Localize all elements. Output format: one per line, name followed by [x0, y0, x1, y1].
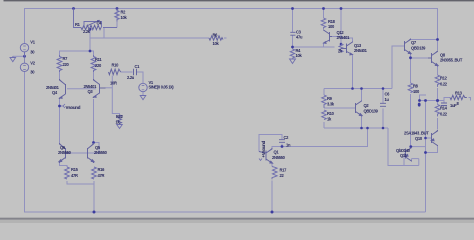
- wire Q11 base drop stub: [418, 159, 420, 166]
- resistor R4: [290, 49, 294, 58]
- wire load R13 right end: [469, 98, 471, 101]
- resistor R16: [92, 167, 97, 179]
- wire Q4 collector down to Vsound node: [59, 99, 61, 143]
- resistor R10b bias: [322, 110, 327, 120]
- wire C6 column: [382, 89, 384, 104]
- ground R12: [117, 125, 123, 129]
- window top border: [4, 0, 474, 1]
- wire feedback resistor open end: [224, 37, 227, 39]
- svg-text:2SA1943_BUT: 2SA1943_BUT: [404, 131, 429, 136]
- wire C1 to V1: [137, 72, 143, 83]
- svg-text:Q11: Q11: [400, 153, 408, 158]
- net flag Out riser: [420, 95, 427, 101]
- net flag Vsound at Q4 collector: [61, 104, 65, 108]
- svg-text:1uF: 1uF: [450, 103, 457, 108]
- wire diff pair base link: [67, 88, 96, 90]
- wire mirror center column: [340, 9, 342, 45]
- svg-text:R10: R10: [112, 63, 120, 68]
- wire Q2 collector: [361, 89, 363, 101]
- wire R9 top: [323, 89, 325, 96]
- wire tail joining R7 R11: [60, 51, 94, 55]
- svg-text:R14: R14: [440, 106, 448, 111]
- resistor R18: [321, 18, 326, 29]
- resistor R15: [65, 167, 70, 179]
- svg-text:2N5550: 2N5550: [58, 150, 72, 155]
- wire R3C4 block to tail: [89, 28, 91, 52]
- svg-text:QBD139: QBD139: [411, 46, 426, 51]
- voltage source V1 input: [139, 83, 147, 91]
- wire VAS emitter to R17: [271, 163, 273, 167]
- ground supplies: [10, 56, 16, 61]
- svg-text:R15: R15: [71, 167, 79, 172]
- svg-text:+Vsound: +Vsound: [261, 140, 266, 157]
- voltage source V2 supply bottom: [20, 56, 28, 71]
- net flag +Vsound rotated bracket: [259, 159, 262, 161]
- wire Q3 collector down to mirror: [93, 99, 95, 143]
- svg-text:Q10: Q10: [415, 136, 423, 141]
- wire left supply column lower: [25, 72, 426, 212]
- svg-text:SINE(0 0.05 1k): SINE(0 0.05 1k): [149, 85, 175, 90]
- wire Q7 collector run: [411, 39, 438, 42]
- wire output node to R14: [437, 103, 439, 106]
- capacitor C1: [134, 69, 137, 76]
- wire R4 to ground: [292, 58, 294, 59]
- transistor Q4 pnp mirrored: [54, 79, 66, 99]
- wire Vbe multiplier base run: [324, 107, 356, 109]
- svg-text:R11: R11: [95, 57, 102, 62]
- wire C6 bottom: [382, 109, 384, 129]
- wire bias bottom to Q11: [388, 128, 419, 166]
- svg-text:220: 220: [95, 63, 102, 68]
- wire output cap stub: [443, 101, 445, 103]
- wire Q8 emitter to R12: [437, 66, 439, 76]
- wire R16 to bottom rail: [93, 181, 95, 212]
- transistor Q12 pnp mirrored: [324, 30, 333, 44]
- transistor Q8 output npn: [428, 51, 438, 67]
- wire bias top run: [324, 88, 392, 90]
- capacitor C3: [290, 32, 295, 35]
- svg-text:47R: 47R: [98, 173, 105, 178]
- svg-text:10k: 10k: [121, 15, 128, 20]
- wire C3 column top: [292, 9, 294, 33]
- resistor R12 input shunt: [118, 115, 122, 124]
- wire Q12 collector stub: [323, 44, 325, 48]
- wire R8 to Q11 base: [410, 94, 412, 147]
- svg-text:2N5550: 2N5550: [94, 150, 108, 155]
- svg-text:2N5550: 2N5550: [272, 155, 286, 160]
- wire VAS collector run: [282, 128, 368, 147]
- wire VAS collector up: [272, 147, 282, 150]
- svg-text:2N5401: 2N5401: [337, 35, 351, 40]
- wire R2 column: [116, 9, 118, 28]
- svg-text:R17: R17: [280, 168, 288, 173]
- wire R17 to bottom rail: [271, 181, 273, 213]
- wire top rail: [25, 9, 438, 51]
- svg-text:100: 100: [328, 24, 335, 29]
- resistor R2: [115, 9, 119, 22]
- svg-text:10k: 10k: [213, 41, 220, 46]
- resistor R14: [435, 105, 440, 117]
- ground C3 R4: [290, 59, 296, 64]
- transistor Q5 npn: [88, 143, 95, 163]
- wire input drop to Q3 base: [106, 87, 113, 89]
- transistor Q7 driver npn: [404, 39, 411, 55]
- svg-text:2.2u: 2.2u: [127, 75, 135, 80]
- svg-text:0.22: 0.22: [440, 112, 448, 117]
- svg-text:100: 100: [413, 89, 420, 94]
- resistor R12: [435, 75, 440, 87]
- wire R11 to Q3 emitter: [93, 71, 95, 79]
- svg-text:2N3055_BUT: 2N3055_BUT: [440, 58, 463, 63]
- svg-text:R12: R12: [116, 114, 124, 119]
- transistor Q11 driver pnp: [404, 147, 412, 162]
- resistor R11: [91, 55, 96, 72]
- wire output node run: [420, 100, 438, 102]
- wire Q6 emitter to R15: [60, 163, 68, 167]
- wire VAS loop with C4: [259, 135, 282, 152]
- wire feedback run: [90, 37, 209, 39]
- wire R7 to Q4 emitter: [59, 71, 61, 79]
- wire Q7 emitter node: [411, 54, 429, 59]
- wire R10b bottom: [323, 122, 325, 128]
- wire Q7 node to R8: [410, 58, 412, 83]
- wire output to load R13: [438, 98, 451, 101]
- svg-text:2N5401: 2N5401: [354, 48, 368, 53]
- svg-text:QBD139: QBD139: [364, 109, 379, 114]
- wire bias bottom run: [324, 127, 388, 129]
- wire Q10 base stub: [426, 137, 432, 139]
- resistor R8 driver emitter: [408, 83, 413, 93]
- svg-text:220: 220: [63, 62, 70, 67]
- wire mirror base run: [293, 46, 335, 48]
- wire R12 to output node: [437, 88, 439, 104]
- wire mirror diode tie: [71, 143, 100, 154]
- capacitor C6: [380, 103, 386, 106]
- resistor R10 input: [109, 69, 121, 75]
- svg-text:3.3k: 3.3k: [327, 102, 335, 107]
- wire block right end drop: [103, 28, 105, 39]
- wire C4 to VAS collector node: [281, 144, 283, 147]
- resistor R19 small: [339, 44, 343, 52]
- resistor R13 load: [450, 95, 467, 99]
- wire output long drop: [425, 101, 427, 213]
- svg-text:Vsound: Vsound: [66, 105, 81, 110]
- svg-text:R16: R16: [98, 167, 106, 172]
- resistor R3 with cap C4 parallel: [74, 9, 118, 30]
- wire R18 column: [323, 9, 325, 19]
- transistor Q6 npn mirrored: [59, 143, 71, 163]
- resistor R6 feedback: [209, 36, 223, 40]
- resistor R9: [322, 95, 327, 108]
- resistor R17 vas emitter: [272, 167, 277, 180]
- transistor Q1 vas npn: [259, 148, 273, 164]
- wire Q11 collector drop: [410, 147, 413, 148]
- wire input node down to R12: [112, 76, 119, 116]
- wire R14 to Q10 emitter: [437, 118, 439, 130]
- capacitor C5 output: [441, 103, 447, 106]
- svg-text:10R: 10R: [110, 81, 117, 86]
- svg-text:R13: R13: [455, 91, 463, 96]
- capacitor C4 miller: [279, 140, 285, 143]
- svg-text:R12: R12: [440, 76, 448, 81]
- wire R15 bottom join: [67, 181, 94, 184]
- voltage source V1 supply top: [20, 44, 28, 57]
- transistor Q2 vbe multiplier: [356, 101, 363, 117]
- wire C3 to node: [292, 36, 294, 50]
- wire Q13 emitter stub: [341, 38, 353, 42]
- window bottom border: [0, 218, 474, 223]
- wire Q2 emitter: [361, 117, 363, 129]
- svg-text:2.2k: 2.2k: [83, 29, 91, 34]
- wire Q13 collector to bias top: [352, 55, 354, 89]
- wire Q12 base link: [332, 36, 341, 38]
- wire Q10 collector: [426, 146, 438, 153]
- svg-text:47u: 47u: [296, 35, 303, 40]
- transistor Q10 output pnp: [431, 130, 437, 146]
- resistor R7: [57, 55, 62, 72]
- wire R10 to C1: [121, 71, 133, 73]
- svg-text:0.22: 0.22: [440, 82, 448, 87]
- transistor Q13 pnp: [341, 42, 353, 56]
- ground V1: [140, 96, 146, 100]
- svg-text:R10: R10: [327, 111, 335, 116]
- wire ground stub of supplies: [13, 55, 25, 57]
- svg-text:10k: 10k: [296, 53, 303, 58]
- transistor Q3 pnp mirrored: [94, 79, 106, 98]
- wire bias top to Q7 base: [392, 46, 405, 89]
- wire V1 to ground: [142, 92, 144, 96]
- svg-text:47R: 47R: [71, 173, 78, 178]
